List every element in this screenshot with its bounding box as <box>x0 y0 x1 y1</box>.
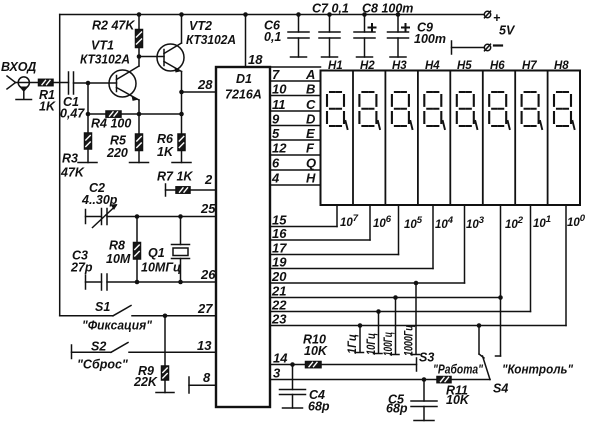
digit H7 <box>522 92 543 129</box>
svg-text:4: 4 <box>271 171 280 186</box>
digit H2 <box>359 92 380 129</box>
svg-text:7216A: 7216A <box>225 88 262 102</box>
wire pin 25 <box>107 216 216 218</box>
svg-text:100m: 100m <box>414 32 446 46</box>
svg-text:21: 21 <box>271 284 286 299</box>
digit H8 <box>554 92 575 129</box>
resistor R11 10K <box>437 377 451 383</box>
capacitor C7 0,1 <box>319 15 340 58</box>
resistor R8 10M <box>134 217 141 283</box>
svg-text:E: E <box>306 126 315 141</box>
node VT1 base junction <box>86 81 91 86</box>
wire pin 23 to H8 and Работа contact <box>270 205 566 358</box>
svg-text:0,47: 0,47 <box>60 107 85 121</box>
svg-text:H4: H4 <box>425 60 440 72</box>
wire R10 to S3 <box>321 364 417 366</box>
svg-text:5V: 5V <box>499 24 516 38</box>
wire +5V top rail <box>60 14 484 16</box>
wire node to VT2 base <box>139 56 164 58</box>
wire C1 to VT1 base <box>74 82 117 84</box>
wire junction down to R9 <box>164 316 166 366</box>
svg-text:10K: 10K <box>304 344 328 358</box>
resistor R4 100 <box>88 111 182 117</box>
svg-text:H3: H3 <box>392 60 407 72</box>
svg-text:22: 22 <box>271 298 287 313</box>
svg-text:Q: Q <box>306 156 316 171</box>
svg-text:КТ3102А: КТ3102А <box>186 33 236 47</box>
timebase tap 1000Гц <box>411 283 420 355</box>
wire pin 27 <box>132 315 216 317</box>
svg-text:R4 100: R4 100 <box>91 117 131 131</box>
svg-text:Q1: Q1 <box>148 246 165 260</box>
digit H1 <box>327 92 348 129</box>
node R8 bottom <box>135 280 140 285</box>
svg-text:17: 17 <box>272 241 287 256</box>
resistor R5 220 <box>136 114 143 163</box>
svg-text:C7 0,1: C7 0,1 <box>312 2 349 16</box>
capacitor C4 68p <box>280 365 306 409</box>
svg-text:R6: R6 <box>157 132 174 146</box>
node emitter / R6 top <box>179 112 184 117</box>
svg-text:68p: 68p <box>386 402 408 416</box>
capacitor C3 27p <box>86 274 108 290</box>
node C4 top <box>290 362 295 367</box>
svg-text:47K: 47K <box>60 166 85 180</box>
segment wires pins 7,10,11,9,5,12,6,4 to display <box>270 67 321 185</box>
capacitor C1 0,47 <box>69 72 74 94</box>
svg-text:КТ3102А: КТ3102А <box>80 53 130 67</box>
svg-text:12: 12 <box>272 141 287 156</box>
svg-text:19: 19 <box>272 255 287 270</box>
pin 18 <box>245 15 247 68</box>
svg-text:D1: D1 <box>236 72 252 86</box>
svg-text:"Фиксация": "Фиксация" <box>82 319 153 333</box>
node Q1 bottom <box>178 280 183 285</box>
svg-text:F: F <box>306 141 315 156</box>
svg-text:1000Гц: 1000Гц <box>404 325 416 356</box>
svg-text:R8: R8 <box>109 239 125 253</box>
svg-text:26: 26 <box>200 267 216 282</box>
pin 8 stub <box>189 377 216 393</box>
svg-text:10M: 10M <box>106 252 131 266</box>
svg-text:S2: S2 <box>91 340 106 354</box>
svg-text:10Гц: 10Гц <box>366 333 378 355</box>
svg-text:S1: S1 <box>95 300 110 314</box>
svg-text:22K: 22K <box>133 375 158 389</box>
svg-text:"Контроль": "Контроль" <box>502 363 574 377</box>
-5V terminal <box>452 41 503 54</box>
svg-text:VT1: VT1 <box>91 39 114 53</box>
node S1/R9 junction <box>163 314 168 319</box>
svg-text:1K: 1K <box>157 145 174 159</box>
svg-text:C: C <box>306 97 316 112</box>
wire pin 14 <box>270 364 306 366</box>
wire pin 13 <box>129 351 216 353</box>
digit H3 <box>392 92 413 129</box>
display block H1-H8 <box>321 71 581 206</box>
wire pin 19 to H4 <box>270 205 433 269</box>
input connector ВХОД <box>7 76 39 100</box>
svg-text:9: 9 <box>272 112 280 127</box>
capacitor C2 4..30p variable <box>86 204 118 228</box>
resistor R7 1K <box>166 184 217 196</box>
svg-text:11: 11 <box>272 97 286 112</box>
timebase tap 10Гц <box>374 312 383 354</box>
switch S3 pole bar <box>416 358 418 371</box>
svg-text:220: 220 <box>106 146 128 160</box>
wire pin 15 to H1 <box>270 205 337 227</box>
svg-text:4..30p: 4..30p <box>81 193 118 207</box>
svg-text:H8: H8 <box>554 60 569 72</box>
node R2 top on rail <box>137 12 142 17</box>
capacitor C5 68p <box>411 380 437 421</box>
wire R11 to S4 pole <box>451 379 490 381</box>
svg-text:10K: 10K <box>446 393 470 407</box>
svg-text:S4: S4 <box>493 382 508 396</box>
svg-text:"Сброс": "Сброс" <box>77 358 129 372</box>
ground R3 <box>78 162 97 164</box>
resistor R9 22K <box>162 366 169 393</box>
node VT2 emitter / wire 28 <box>179 90 184 95</box>
transistor VT2 KT3102A <box>157 15 184 115</box>
node R2 bottom / VT2 base <box>137 54 142 59</box>
node C5 top <box>422 377 427 382</box>
svg-text:13: 13 <box>197 338 212 353</box>
resistor R1 1K <box>39 79 54 85</box>
svg-text:C8 100m: C8 100m <box>362 2 413 16</box>
crystal Q1 10MHz <box>172 217 190 283</box>
svg-text:1K: 1K <box>39 100 56 114</box>
timebase tap 1Гц <box>355 326 364 353</box>
+5V terminal <box>484 11 490 18</box>
svg-text:10МГц: 10МГц <box>141 261 181 275</box>
svg-text:7: 7 <box>272 67 280 82</box>
wire pin 3 <box>270 379 437 381</box>
wire pin 26 <box>107 281 216 283</box>
ground R9 <box>156 392 174 394</box>
svg-text:D: D <box>306 112 316 127</box>
transistor VT1 KT3102A <box>109 57 139 115</box>
ground R6 <box>172 162 191 164</box>
svg-text:R3: R3 <box>62 152 78 166</box>
resistor R3 47K <box>85 114 92 163</box>
svg-text:H7: H7 <box>522 60 537 72</box>
IC D1 7216A <box>216 67 270 407</box>
resistor R2 47K <box>136 15 143 57</box>
wire pin 21 to H6 and Контроль contact <box>270 205 501 356</box>
svg-text:H5: H5 <box>457 60 472 72</box>
svg-text:H2: H2 <box>360 60 375 72</box>
svg-text:10: 10 <box>272 82 287 97</box>
ground R5 <box>130 162 149 164</box>
svg-text:2: 2 <box>204 172 213 187</box>
svg-text:R7 1K: R7 1K <box>157 170 193 184</box>
node Q1 top <box>178 214 183 219</box>
wire base node down <box>87 83 89 114</box>
capacitor C6 0,1 <box>288 15 309 58</box>
capacitor C9 100m electrolytic <box>388 15 410 58</box>
svg-text:6: 6 <box>272 156 280 171</box>
svg-text:ВХОД: ВХОД <box>1 60 36 74</box>
svg-text:1Гц: 1Гц <box>347 334 359 354</box>
svg-text:100Гц: 100Гц <box>383 332 395 356</box>
switch S4 blade <box>483 356 491 380</box>
node R8 top <box>135 214 140 219</box>
svg-text:8: 8 <box>203 370 211 385</box>
svg-text:23: 23 <box>271 312 287 327</box>
svg-text:68p: 68p <box>308 400 330 414</box>
svg-text:16: 16 <box>272 226 287 241</box>
timebase tap 100Гц <box>391 298 400 355</box>
svg-text:27: 27 <box>197 301 213 316</box>
node R3/R4 junction <box>86 112 91 117</box>
wire left vertical rail <box>59 15 61 316</box>
svg-text:H6: H6 <box>490 60 505 72</box>
wire pin 20 to H5 <box>270 205 465 283</box>
resistor R6 1K <box>178 114 185 163</box>
resistor R10 10K <box>306 362 322 368</box>
switch S1 Фиксация <box>60 306 131 316</box>
svg-text:27p: 27p <box>70 261 93 275</box>
svg-text:A: A <box>305 67 315 82</box>
svg-text:"Работа": "Работа" <box>433 363 484 377</box>
node R4/R5/VT1 emitter <box>137 112 142 117</box>
decade labels <box>340 213 586 231</box>
capacitor C8 100m electrolytic <box>354 15 376 58</box>
digit H4 <box>424 92 445 129</box>
svg-text:R2 47K: R2 47K <box>92 19 135 33</box>
svg-text:5: 5 <box>272 126 280 141</box>
node VT2 collector on rail <box>179 12 184 17</box>
wire pin 22 to H7 <box>270 205 531 312</box>
wire pin 28 <box>182 91 217 93</box>
digit H5 <box>457 92 478 129</box>
wire pin 16 to H2 <box>270 205 370 240</box>
digit H6 <box>489 92 510 129</box>
svg-text:14: 14 <box>273 351 288 366</box>
svg-text:20: 20 <box>271 269 287 284</box>
svg-text:3: 3 <box>273 366 281 381</box>
wire R1 to C1 <box>53 82 69 84</box>
svg-text:H: H <box>306 171 316 186</box>
svg-text:H1: H1 <box>328 60 343 72</box>
svg-text:VT2: VT2 <box>189 19 212 33</box>
switch S2 Сброс <box>72 343 129 359</box>
svg-text:25: 25 <box>200 201 216 216</box>
wire pin 17 to H3 <box>270 205 399 255</box>
svg-text:B: B <box>306 82 315 97</box>
svg-text:18: 18 <box>248 52 263 67</box>
svg-text:28: 28 <box>197 77 213 92</box>
svg-text:0,1: 0,1 <box>264 30 281 44</box>
